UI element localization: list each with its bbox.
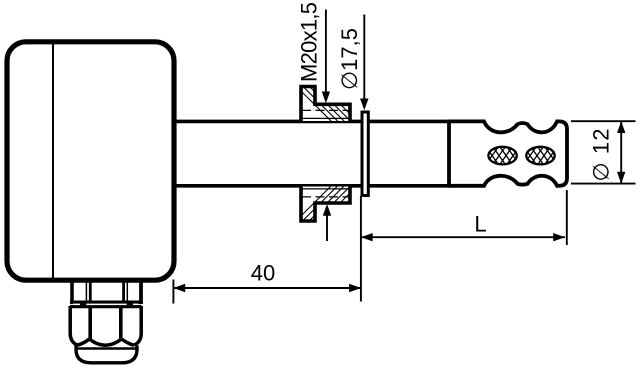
extension line below body (172, 280, 174, 304)
cable gland dome (76, 346, 137, 363)
dimension d12 line (617, 121, 625, 183)
dimension M20x1,5 leader top (322, 10, 330, 104)
svg-text:∅17,5: ∅17,5 (337, 28, 362, 90)
sensor head body (7, 42, 174, 280)
fitting top section (292, 82, 371, 122)
tube bottom line (174, 184, 450, 188)
cable gland upper body (70, 279, 143, 304)
svg-text:L: L (474, 212, 486, 237)
dimension 40 line (173, 284, 361, 292)
fitting bottom section (292, 185, 371, 225)
extension line d12 top (571, 120, 636, 122)
svg-text:M20x1,5: M20x1,5 (297, 2, 322, 82)
svg-text:40: 40 (251, 261, 275, 286)
collar disc (362, 112, 368, 196)
cable gland nut top edge (70, 302, 143, 308)
extension line tip end (566, 190, 568, 245)
extension line d12 bottom (571, 183, 636, 185)
body internal line (52, 42, 54, 279)
dimension d17,5 leader (360, 15, 368, 111)
dimension M20x1,5 leader bottom (323, 204, 331, 241)
probe tip outline (449, 121, 567, 185)
tube top line (174, 120, 450, 124)
cable gland nut (70, 306, 141, 345)
svg-text:∅ 12: ∅ 12 (589, 129, 614, 182)
sensing hole 2 (495, 145, 587, 166)
extension line below collar (360, 196, 362, 302)
sensing hole 1 (457, 145, 549, 166)
tip joint line (447, 120, 451, 188)
dimension L line (361, 233, 565, 241)
